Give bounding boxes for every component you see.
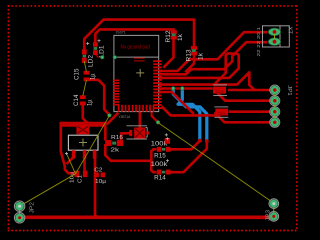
IC1 tab pad	[76, 125, 89, 134]
resistor R15	[151, 140, 171, 159]
svg-text:R15: R15	[154, 154, 166, 160]
wire airwire XT pads	[274, 35, 276, 39]
JP2 pad 1	[14, 201, 24, 211]
wire R15 right to blue via 1	[168, 141, 200, 150]
wire pad to WDN diagonal	[156, 92, 194, 114]
svg-text:JP1: JP1	[286, 85, 292, 96]
svg-text:1k: 1k	[178, 33, 184, 41]
JP3 pad 2	[269, 212, 279, 222]
svg-text:22 22 20 1: 22 22 20 1	[256, 26, 261, 56]
JP1 pad 3	[270, 107, 280, 117]
svg-text:1k: 1k	[198, 52, 204, 60]
svg-text:C1: C1	[78, 175, 84, 183]
resistor R12	[166, 30, 184, 43]
wire R16 to R15/R14 left pads	[105, 144, 151, 161]
wire regulator ring right to R16	[104, 124, 107, 141]
wire regulator leg3 to C2 to bottom corner	[95, 150, 98, 217]
svg-text:D1: D1	[232, 87, 238, 92]
wire bus L5 to JP1 pin1	[155, 72, 270, 90]
resistor R16	[105, 135, 123, 154]
svg-text:R12: R12	[166, 30, 172, 43]
wire LD2 to R13 top	[84, 20, 194, 53]
wire JP1 pin3 / WDN right	[229, 110, 271, 113]
component C13 (CTS box)	[213, 85, 237, 96]
module outline	[114, 35, 159, 111]
wire bus L1 to XT pin1	[155, 32, 268, 71]
wire R13 bottom to bus L1	[185, 56, 194, 73]
wire JP1 pin4	[215, 112, 271, 122]
wire blue B1	[178, 89, 200, 140]
module left pads	[113, 80, 119, 106]
capacitor C1	[70, 171, 88, 183]
module bottom pads	[118, 105, 155, 112]
via blue end 1	[198, 139, 202, 143]
pad gap airwires	[20, 35, 275, 214]
wire bus L3 arch	[155, 54, 239, 85]
via	[113, 55, 117, 59]
module origin cross	[136, 69, 144, 77]
capacitor C2	[94, 168, 107, 186]
svg-text:No ground pad: No ground pad	[121, 44, 151, 50]
wire LD1 to R12 top	[95, 29, 175, 44]
wire airwire JP1 pads	[274, 95, 276, 97]
IC1 origin cross	[79, 139, 87, 147]
wire airwire JP2 pads	[19, 210, 21, 214]
svg-text:JP2: JP2	[30, 202, 36, 214]
wire bottom rail JP2 to JP3	[20, 216, 272, 220]
JP2 pad 2	[14, 213, 24, 223]
wire regulator ring left to C1	[61, 123, 76, 173]
LED LD1	[93, 42, 106, 57]
wire airwire JP3 pads	[273, 208, 275, 213]
small cross marks	[65, 39, 169, 162]
via	[100, 55, 104, 59]
wire leg1 hook	[67, 157, 74, 164]
JP1 pad 2	[270, 96, 280, 106]
wire WDN left thick feed	[162, 106, 218, 115]
wire airwire C1-via	[76, 116, 110, 174]
wire blue B2	[173, 89, 207, 141]
wire R12 bottom to module pad	[163, 40, 173, 68]
svg-text:1µ: 1µ	[91, 73, 97, 80]
LED LD2	[82, 49, 95, 67]
wire antenna stub	[114, 58, 116, 81]
via	[171, 87, 175, 91]
svg-text:R13: R13	[186, 49, 192, 62]
JP1 pad 4	[270, 117, 280, 127]
component C16 (WDN box)	[214, 107, 228, 117]
resistor R13	[186, 46, 204, 62]
svg-text:LD2: LD2	[89, 54, 95, 67]
wire CTS feed	[156, 87, 213, 90]
via	[181, 87, 185, 91]
svg-text:C14: C14	[74, 94, 80, 106]
svg-text:XT: XT	[287, 27, 293, 35]
wire airwire via-JP3	[158, 123, 273, 203]
wire JP1 pin2	[216, 92, 270, 101]
JP3 pad 1	[269, 199, 279, 209]
svg-text:10µ: 10µ	[95, 179, 107, 185]
capacitor C15	[75, 68, 97, 81]
wire module pad to green via	[152, 108, 158, 122]
module keepout marks	[134, 58, 145, 59]
svg-text:R14: R14	[154, 175, 166, 181]
via	[108, 114, 112, 118]
wire LD1 bottom to via	[95, 55, 101, 58]
wire ring top	[60, 122, 107, 127]
JP1 pad 1	[270, 85, 280, 95]
IC1 body	[68, 135, 98, 150]
module right pads	[153, 60, 161, 109]
wire bus L2 to XT pin2	[155, 42, 268, 74]
svg-text:C16: C16	[217, 110, 225, 115]
wire R16 right to diode	[121, 133, 129, 140]
XT pad 1	[268, 28, 280, 36]
svg-text:C13: C13	[216, 89, 224, 94]
svg-text:100k: 100k	[151, 161, 169, 168]
svg-text:1µ: 1µ	[88, 99, 94, 106]
wire C14 bottom to regulator ring	[83, 105, 89, 125]
small pad near module	[165, 138, 170, 144]
wire R14 right to blue via 2	[168, 141, 207, 172]
IC1 legs	[72, 150, 76, 158]
capacitor C14	[74, 94, 94, 106]
wire CTS right to JP1 pin1	[228, 89, 254, 92]
wire airwire JP2-C1	[20, 174, 76, 206]
svg-text:2k: 2k	[111, 148, 120, 154]
svg-text:JS071: JS071	[116, 31, 126, 35]
svg-text:Y2B71A: Y2B71A	[119, 115, 132, 119]
diode D2 (X box)	[127, 126, 148, 139]
wire C15 bottom to via corner	[86, 80, 111, 116]
via	[156, 121, 160, 125]
svg-text:C15: C15	[75, 68, 81, 80]
via blue end 2	[205, 139, 209, 143]
wire airwire C1 short	[67, 154, 76, 174]
wire regulator leg2 to C1 right	[83, 150, 86, 172]
resistor R14	[151, 161, 171, 181]
wire belt diagonal to regulator ring	[107, 113, 119, 125]
svg-text:JP3: JP3	[266, 210, 272, 221]
wire diode to module pad	[139, 111, 142, 128]
XT pad 2	[268, 38, 280, 46]
thin red traces	[95, 55, 115, 81]
wire airwire LD2-C15	[84, 61, 86, 72]
wire airwire C15-C14	[83, 80, 87, 96]
